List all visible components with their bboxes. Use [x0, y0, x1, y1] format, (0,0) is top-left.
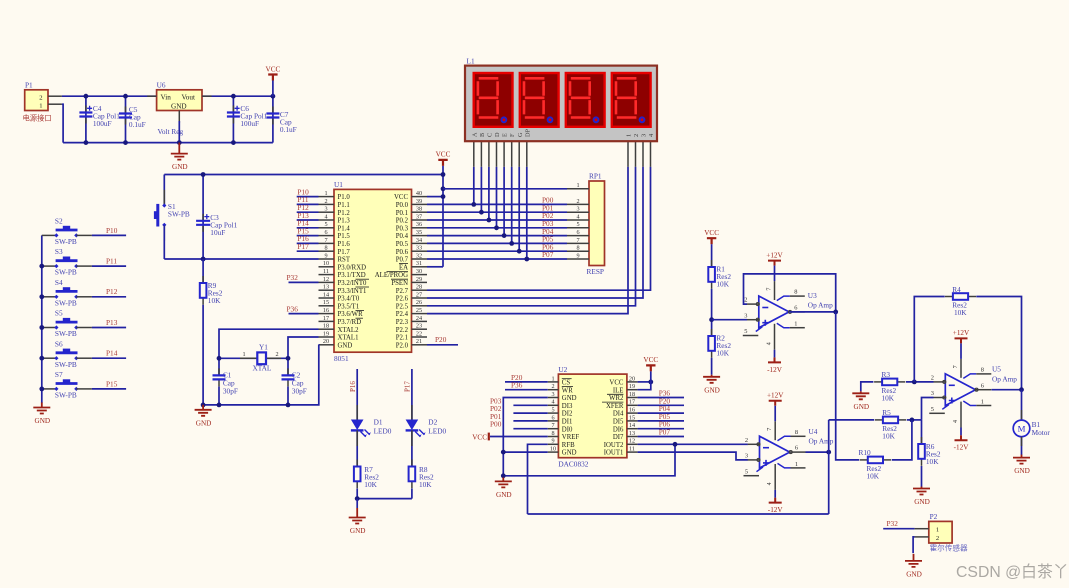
pin RP1-7	[567, 242, 589, 244]
svg-text:P1.5: P1.5	[338, 233, 351, 240]
svg-text:DI4: DI4	[613, 411, 624, 418]
pin U4-7 V+	[774, 421, 776, 440]
pin U1-17 P3.7/RD	[319, 320, 335, 322]
op-amp U4	[760, 436, 790, 468]
svg-text:25: 25	[416, 307, 422, 314]
wire EA to VCC	[427, 266, 443, 268]
svg-text:S4: S4	[55, 278, 63, 287]
pin U3-6 output	[789, 311, 805, 313]
svg-text:F: F	[509, 133, 516, 137]
pin U1-8 P1.7	[319, 250, 335, 252]
svg-text:G: G	[517, 132, 524, 137]
svg-text:27: 27	[416, 291, 422, 298]
svg-text:VCC: VCC	[643, 356, 658, 364]
capacitor C7	[266, 96, 296, 142]
pin U5-8	[963, 374, 976, 379]
svg-text:P0.0: P0.0	[396, 202, 409, 209]
pin U2-15 DI5	[627, 420, 638, 422]
pin U2-3 GND	[548, 397, 559, 399]
wire P0.1 bus	[427, 211, 567, 213]
svg-text:0.1uF: 0.1uF	[280, 125, 297, 134]
pin U1-28 P2.7	[412, 289, 428, 291]
ground GND R3	[860, 391, 862, 393]
svg-text:P07: P07	[542, 250, 554, 259]
svg-text:P0.7: P0.7	[396, 257, 409, 264]
junction IOUT2 ground	[501, 473, 506, 478]
svg-text:10K: 10K	[882, 431, 895, 440]
svg-text:37: 37	[416, 213, 422, 220]
svg-text:S7: S7	[55, 370, 63, 379]
svg-text:GND: GND	[854, 403, 870, 411]
svg-text:8: 8	[324, 245, 327, 252]
svg-text:1: 1	[936, 527, 939, 534]
svg-text:33: 33	[416, 245, 422, 252]
resistor R3	[874, 370, 905, 402]
pin U1-3 P1.2	[319, 211, 335, 213]
svg-text:U6: U6	[157, 81, 166, 90]
wire crystal row left	[219, 357, 257, 359]
svg-text:GND: GND	[562, 450, 577, 457]
svg-text:CSDN @白茶丫: CSDN @白茶丫	[956, 563, 1069, 581]
pin U6 GND	[178, 111, 180, 124]
svg-text:E: E	[502, 133, 509, 137]
svg-text:Op Amp: Op Amp	[809, 437, 834, 446]
overbar INT1	[356, 286, 370, 288]
svg-text:20: 20	[629, 375, 635, 382]
junction C5 top	[123, 94, 128, 99]
svg-text:4: 4	[551, 399, 554, 406]
svg-text:RFB: RFB	[562, 442, 575, 449]
pin RP1-8	[567, 250, 589, 252]
svg-text:5: 5	[551, 407, 554, 414]
junction VCC pin40	[441, 194, 446, 199]
svg-text:P1.4: P1.4	[338, 225, 351, 232]
pin U1-19 XTAL1	[319, 336, 335, 338]
wire RP1 common to VCC	[443, 188, 567, 190]
svg-text:S5: S5	[55, 309, 63, 318]
svg-text:4: 4	[324, 213, 327, 220]
svg-text:P0.6: P0.6	[396, 249, 409, 256]
svg-text:3: 3	[551, 391, 554, 398]
svg-text:P36: P36	[511, 381, 523, 390]
wire WR net	[505, 389, 548, 391]
svg-text:P2.3: P2.3	[396, 319, 409, 326]
svg-text:18: 18	[629, 391, 635, 398]
svg-text:P0.2: P0.2	[396, 218, 409, 225]
resistor R10	[859, 448, 892, 480]
wire VREF	[490, 436, 548, 438]
svg-text:GND: GND	[35, 417, 51, 425]
svg-text:7: 7	[551, 422, 554, 429]
junction R10 riser	[910, 418, 915, 423]
wire divider to U3 pin3	[712, 319, 747, 321]
svg-text:14: 14	[629, 422, 635, 429]
junction R4/R3 node	[912, 380, 917, 385]
resistor pack RP1	[587, 171, 605, 276]
wire VCC vertical to U1	[442, 166, 444, 267]
svg-text:GND: GND	[1014, 467, 1030, 475]
svg-text:P20: P20	[435, 335, 447, 344]
wire U3 output down to R10	[836, 312, 860, 460]
svg-text:2: 2	[745, 437, 748, 444]
wire S7 to net P15	[92, 388, 126, 390]
resistor R4	[945, 285, 976, 317]
svg-text:5: 5	[576, 221, 579, 228]
capacitor C4	[79, 96, 120, 142]
svg-text:P17: P17	[404, 381, 412, 392]
svg-text:P32: P32	[887, 519, 899, 528]
svg-text:P1.7: P1.7	[338, 249, 351, 256]
wire R7 down	[356, 489, 358, 499]
display L1 seven-segment 4-digit	[465, 56, 657, 141]
wire U4 output	[806, 451, 829, 453]
wire P2.6 to display digit	[427, 167, 643, 298]
svg-text:2: 2	[633, 134, 640, 137]
pin U1-20 GND	[319, 344, 335, 346]
pin U5-3	[934, 397, 946, 399]
svg-text:11: 11	[629, 446, 635, 453]
pin U2-17 XFER	[627, 404, 638, 406]
svg-text:XTAL2: XTAL2	[338, 327, 360, 334]
svg-text:2: 2	[744, 297, 747, 304]
wire DI6 net	[638, 428, 684, 430]
ground GND R6	[921, 487, 923, 489]
pin U1-36 P0.3	[412, 227, 428, 229]
pin U2-13 DI7	[627, 436, 638, 438]
ground GND at U2	[502, 477, 504, 481]
pin U3-4 V-	[774, 324, 776, 350]
pin U1-23 P2.2	[412, 328, 428, 330]
svg-text:RESP: RESP	[587, 267, 604, 276]
wire P2.7 to display digit	[427, 167, 651, 290]
wire U5 output	[992, 389, 1022, 391]
wire U1 VCC pin40	[427, 196, 443, 198]
wire U1 P1.7	[297, 250, 319, 252]
pin U1-10 P3.0/RXD	[319, 266, 335, 268]
svg-text:IOUT2: IOUT2	[604, 442, 624, 449]
pin U5-5	[942, 405, 949, 410]
svg-text:P07: P07	[659, 428, 671, 437]
svg-text:R3: R3	[882, 370, 891, 379]
wire LED ground join	[357, 498, 412, 500]
resistor R7	[354, 460, 379, 489]
svg-text:DI0: DI0	[562, 426, 573, 433]
wire WR2 net	[638, 397, 684, 399]
svg-text:B: B	[479, 133, 486, 137]
svg-text:DI7: DI7	[613, 434, 624, 441]
pin U2-8 VREF	[548, 436, 559, 438]
svg-text:ILE: ILE	[613, 387, 624, 394]
junction P0.4 tap	[502, 233, 507, 238]
wire XTAL1 to Y1	[288, 337, 319, 375]
svg-text:P14: P14	[106, 349, 118, 358]
wire R3 to U5 pin2	[906, 381, 934, 383]
svg-text:R4: R4	[952, 285, 961, 294]
svg-text:31: 31	[416, 260, 422, 267]
svg-text:3: 3	[744, 312, 747, 319]
junction C4 bottom	[84, 140, 89, 145]
pin U2-16 DI4	[627, 412, 638, 414]
svg-text:-12V: -12V	[767, 366, 783, 374]
svg-text:WR2: WR2	[609, 395, 624, 402]
pin U1-6 P1.5	[319, 235, 335, 237]
svg-text:P2.0: P2.0	[396, 342, 409, 349]
pin U1-13 P3.3/INT1	[319, 289, 335, 291]
pin U1-30 ALE/PROG	[412, 274, 428, 276]
pin U4-5	[757, 467, 764, 472]
pin U1-34 P0.5	[412, 242, 428, 244]
junction P0.6 tap	[517, 249, 522, 254]
wire DI4 net	[638, 412, 684, 414]
svg-text:14: 14	[323, 291, 329, 298]
svg-text:1: 1	[39, 102, 42, 109]
svg-text:16: 16	[629, 407, 635, 414]
svg-text:8: 8	[981, 367, 984, 374]
junction Y1 right	[286, 356, 291, 361]
svg-text:10K: 10K	[419, 480, 432, 489]
svg-text:P2.5: P2.5	[396, 303, 409, 310]
junction C7 top	[271, 94, 276, 99]
pin U1-24 P2.3	[412, 320, 428, 322]
svg-text:10K: 10K	[954, 308, 967, 317]
voltage regulator U6	[157, 81, 202, 137]
svg-text:20: 20	[323, 338, 329, 345]
wire U3 output	[789, 311, 836, 313]
svg-text:GND: GND	[172, 163, 188, 171]
junction P0.0 tap	[471, 202, 476, 207]
wire RFB feedback	[528, 513, 829, 515]
svg-text:DI1: DI1	[562, 419, 573, 426]
overbar EA	[399, 263, 408, 265]
pin U1-37 P0.2	[412, 219, 428, 221]
svg-text:13: 13	[629, 430, 635, 437]
wire IOUT2 ground loop	[503, 444, 675, 476]
svg-text:LED0: LED0	[374, 427, 392, 436]
wire display segment column 5	[511, 167, 513, 244]
junction divider node	[709, 317, 714, 322]
svg-text:100uF: 100uF	[240, 119, 259, 128]
pin U2-5 DI2	[548, 412, 559, 414]
svg-text:P1.1: P1.1	[338, 202, 350, 209]
junction rail S4	[39, 294, 44, 299]
display digit 1	[474, 73, 513, 127]
pin U4-1	[778, 463, 791, 468]
svg-text:10K: 10K	[208, 296, 221, 305]
pin RP1-6	[567, 235, 589, 237]
svg-text:+12V: +12V	[766, 251, 783, 259]
pin U2-1 CS	[548, 381, 559, 383]
wire U2 VCC pin20	[638, 381, 651, 383]
svg-text:2: 2	[551, 383, 554, 390]
svg-text:U2: U2	[558, 365, 567, 374]
svg-text:VCC: VCC	[609, 380, 623, 387]
wire CS net	[505, 381, 548, 383]
svg-text:17: 17	[629, 399, 635, 406]
overbar WR U2	[562, 386, 573, 388]
svg-text:R5: R5	[882, 408, 891, 417]
svg-text:2: 2	[275, 351, 278, 358]
op-amp U3	[759, 296, 789, 328]
pin RP1-9	[567, 258, 589, 260]
display digit 3	[566, 73, 605, 127]
svg-text:1: 1	[981, 399, 984, 406]
svg-text:P1.3: P1.3	[338, 218, 351, 225]
pin U3-2	[747, 303, 759, 305]
svg-text:2: 2	[39, 94, 42, 101]
ground GND divider	[711, 375, 713, 377]
wire DI2 net	[513, 412, 547, 414]
svg-text:VCC: VCC	[472, 433, 487, 441]
wire P3.6 net	[289, 313, 319, 315]
junction C3 top	[201, 172, 206, 177]
overbar ALE/PROG	[387, 270, 409, 272]
svg-text:IOUT1: IOUT1	[604, 450, 624, 457]
pin P2-2	[915, 536, 929, 538]
svg-text:SW-PB: SW-PB	[55, 237, 77, 246]
ground GND motor	[1021, 455, 1023, 458]
svg-text:6: 6	[576, 229, 579, 236]
switch S3	[42, 247, 92, 277]
pin U1-4 P1.3	[319, 219, 335, 221]
svg-text:XFER: XFER	[606, 403, 624, 410]
svg-text:10K: 10K	[882, 393, 895, 402]
junction P0.2 tap	[487, 218, 492, 223]
svg-text:23: 23	[416, 323, 422, 330]
junction rail S6	[39, 356, 44, 361]
svg-text:11: 11	[323, 268, 329, 275]
wire U1 P1.5	[297, 235, 319, 237]
svg-text:39: 39	[416, 198, 422, 205]
svg-text:19: 19	[323, 330, 329, 337]
wire RST top rail	[164, 174, 443, 176]
wire U5 out to motor	[1021, 390, 1023, 421]
wire XTAL2 to Y1	[219, 329, 319, 375]
pin U1-33 P0.6	[412, 250, 428, 252]
svg-text:100uF: 100uF	[93, 119, 112, 128]
svg-text:1: 1	[794, 321, 797, 328]
svg-text:M: M	[1018, 424, 1026, 434]
svg-text:VCC: VCC	[266, 65, 281, 73]
pin U5-4 V-	[960, 402, 962, 428]
svg-text:P17: P17	[297, 242, 309, 251]
wire ground rail	[63, 142, 273, 144]
svg-text:EA: EA	[399, 264, 408, 271]
svg-text:P2.6: P2.6	[396, 296, 409, 303]
svg-text:Motor: Motor	[1032, 428, 1051, 437]
wire display segment column 7	[526, 167, 528, 259]
wire S6 to net P14	[92, 357, 126, 359]
svg-text:P2.4: P2.4	[396, 311, 409, 318]
svg-text:19: 19	[629, 383, 635, 390]
svg-text:-12V: -12V	[768, 506, 784, 514]
pin U4-8	[778, 436, 791, 441]
switch S1	[154, 175, 190, 260]
svg-text:Op Amp: Op Amp	[992, 374, 1017, 383]
svg-text:P3.4/T0: P3.4/T0	[338, 296, 360, 303]
svg-text:7: 7	[324, 237, 327, 244]
svg-text:Vout: Vout	[182, 94, 195, 102]
wire R4 right riser	[976, 297, 1021, 390]
wire display segment column 2	[488, 167, 490, 220]
svg-text:7: 7	[767, 428, 773, 431]
ground GND switch rail	[41, 403, 43, 408]
svg-text:P2.7: P2.7	[396, 288, 409, 295]
svg-text:XTAL1: XTAL1	[338, 335, 359, 342]
svg-text:10K: 10K	[867, 471, 880, 480]
junction C5 bottom	[123, 140, 128, 145]
svg-text:P0.1: P0.1	[396, 210, 408, 217]
svg-text:38: 38	[416, 206, 422, 213]
pin U4-6 output	[790, 451, 806, 453]
pin U1-27 P2.6	[412, 297, 428, 299]
display digit 4	[612, 73, 651, 127]
svg-text:P1.2: P1.2	[338, 210, 351, 217]
pin U6 Vout	[202, 95, 212, 97]
svg-text:+12V: +12V	[953, 329, 970, 337]
svg-text:RP1: RP1	[589, 171, 602, 180]
svg-text:P36: P36	[287, 304, 299, 313]
wire S4 to net P12	[92, 296, 126, 298]
resistor R9	[200, 259, 223, 405]
wire crystal ground rail	[203, 345, 319, 405]
pin RP1-1	[567, 188, 589, 190]
junction C1 ground	[217, 403, 222, 408]
crystal Y1	[242, 342, 278, 372]
pin U1-5 P1.4	[319, 227, 335, 229]
wire U4 output to R5 and RFB	[828, 420, 830, 514]
overbar WR	[356, 309, 365, 311]
pin U1-26 P2.5	[412, 305, 428, 307]
svg-text:SW-PB: SW-PB	[55, 360, 77, 369]
svg-text:P3.7/RD: P3.7/RD	[338, 319, 362, 326]
pin U1-40 VCC	[412, 196, 428, 198]
pin U2-14 DI6	[627, 428, 638, 430]
svg-text:DI6: DI6	[613, 426, 624, 433]
svg-text:P12: P12	[106, 287, 118, 296]
capacitor C6	[227, 96, 268, 142]
svg-text:P3.2/INT0: P3.2/INT0	[338, 280, 367, 287]
svg-text:WR: WR	[562, 387, 573, 394]
svg-text:DP: DP	[524, 129, 531, 137]
svg-text:SW-PB: SW-PB	[55, 298, 77, 307]
pin U6 Vin	[147, 95, 156, 97]
svg-text:7: 7	[576, 237, 579, 244]
junction Y1 left	[217, 356, 222, 361]
junction VCC rail	[441, 172, 446, 177]
svg-text:DI2: DI2	[562, 411, 573, 418]
junction RST/R9	[201, 257, 206, 262]
svg-text:10K: 10K	[926, 457, 939, 466]
svg-text:1: 1	[795, 461, 798, 468]
pin U1-11 P3.1/TXD	[319, 274, 335, 276]
svg-text:36: 36	[416, 221, 422, 228]
switch S6	[42, 339, 92, 369]
svg-text:P16: P16	[349, 381, 357, 392]
svg-text:2: 2	[576, 198, 579, 205]
wire S5 to net P13	[92, 327, 126, 329]
svg-text:VCC: VCC	[704, 229, 719, 237]
svg-text:6: 6	[324, 229, 327, 236]
wire P0.6 bus	[427, 250, 567, 252]
svg-text:ALE/PROG: ALE/PROG	[375, 272, 408, 279]
svg-text:P0.5: P0.5	[396, 241, 409, 248]
pin U2-18 WR2	[627, 397, 638, 399]
pin U1-38 P0.1	[412, 211, 428, 213]
pin U1-9 RST	[319, 258, 335, 260]
svg-text:9: 9	[576, 252, 579, 259]
svg-text:1: 1	[576, 182, 579, 189]
wire U1 P1.6	[297, 242, 319, 244]
